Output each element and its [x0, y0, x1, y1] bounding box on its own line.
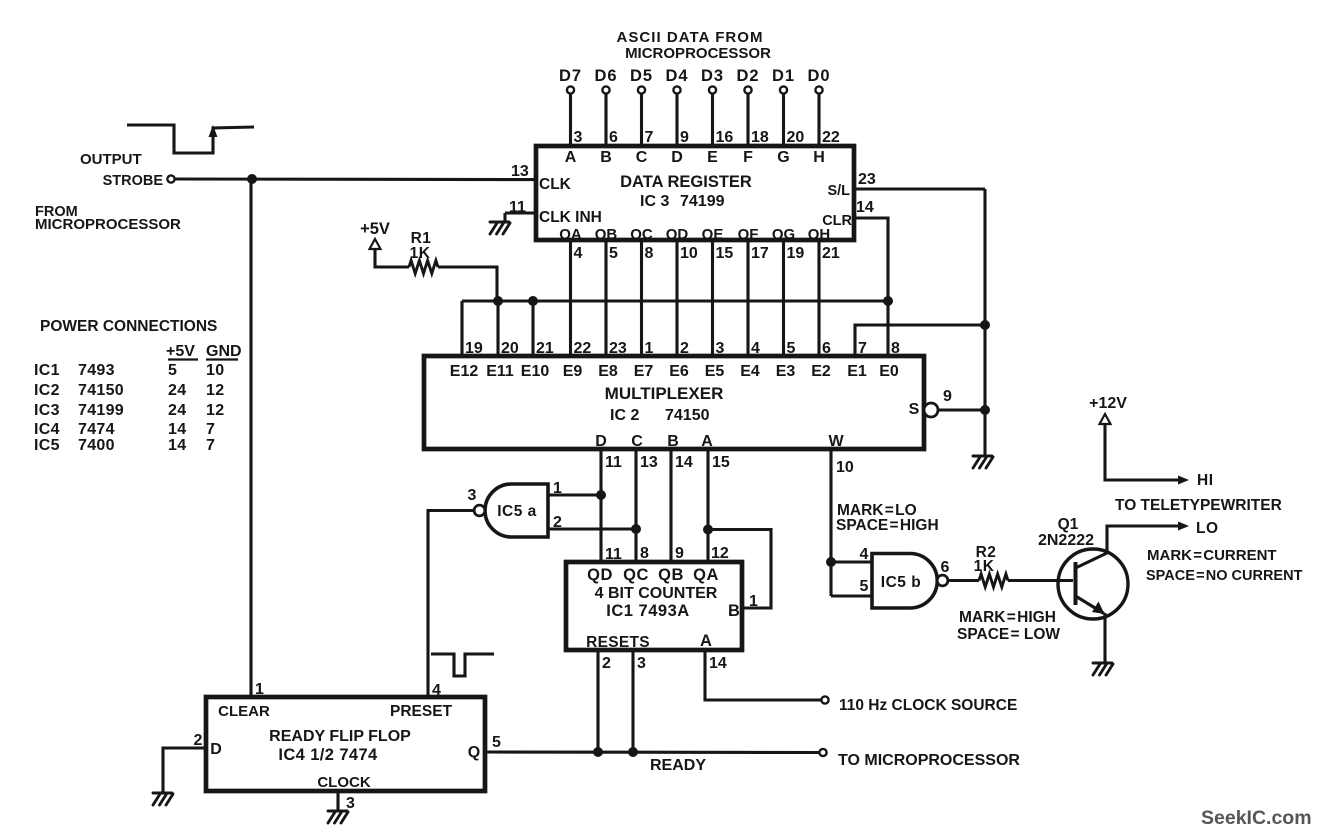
nand gate IC5b body: [872, 554, 937, 609]
svg-text:74199: 74199: [680, 193, 725, 210]
svg-text:11: 11: [605, 454, 622, 471]
svg-text:7: 7: [206, 421, 215, 438]
svg-text:E5: E5: [705, 363, 725, 380]
wire mux C pin 13 down to counter QC pin 8: [634, 449, 637, 562]
wire IC5a output to flip-flop PRESET pin 4: [428, 511, 473, 698]
multiplexer IC2 74150 box: [424, 356, 924, 449]
ground at Q1 emitter: [1093, 663, 1113, 675]
svg-text:E2: E2: [811, 363, 831, 380]
svg-text:QC: QC: [623, 566, 649, 584]
svg-text:8: 8: [891, 340, 900, 357]
svg-text:1K: 1K: [974, 558, 995, 575]
svg-text:D7: D7: [559, 67, 582, 85]
svg-text:TO TELETYPEWRITER: TO TELETYPEWRITER: [1115, 497, 1282, 514]
svg-text:TO MICROPROCESSOR: TO MICROPROCESSOR: [838, 752, 1020, 769]
svg-text:3: 3: [346, 795, 355, 812]
wire D3 to register pin 16: [711, 94, 714, 146]
svg-text:A: A: [565, 149, 577, 166]
wire strobe to CLK pin 13: [175, 177, 536, 181]
svg-text:MARK = HIGH: MARK = HIGH: [959, 609, 1056, 626]
svg-text:E4: E4: [740, 363, 760, 380]
svg-text:E8: E8: [598, 363, 618, 380]
junction bus at E0/CLR vertical: [883, 296, 893, 306]
svg-text:SPACE = HIGH: SPACE = HIGH: [836, 517, 939, 534]
node TO MICROPROCESSOR terminal: [819, 749, 826, 756]
node 110 Hz clock source terminal: [821, 696, 828, 703]
svg-text:4: 4: [574, 245, 583, 262]
svg-text:5: 5: [787, 340, 796, 357]
svg-text:+5V: +5V: [360, 220, 390, 238]
svg-text:IC1: IC1: [34, 362, 60, 379]
svg-text:2: 2: [680, 340, 689, 357]
svg-text:18: 18: [751, 129, 769, 146]
svg-text:7: 7: [858, 340, 867, 357]
svg-text:10: 10: [680, 245, 698, 262]
svg-text:17: 17: [751, 245, 769, 262]
wire D0 to register pin 22: [817, 94, 820, 146]
svg-text:14: 14: [168, 437, 186, 454]
wire D2 to register pin 18: [746, 94, 749, 146]
svg-text:20: 20: [501, 340, 519, 357]
wire D pin 2 to ground: [163, 748, 206, 792]
svg-text:D3: D3: [701, 67, 724, 85]
svg-text:7: 7: [645, 129, 654, 146]
ground at flip flop clock: [328, 811, 348, 823]
wire R1 to +5V bus: [438, 267, 497, 301]
wire register output QH pin 21 down to multiplexer E2: [817, 240, 820, 356]
svg-text:7474: 7474: [78, 421, 115, 438]
wire bus down to E0 pin 8: [886, 301, 889, 356]
wire D5 to register pin 7: [640, 94, 643, 146]
ground at flip flop D input: [153, 793, 173, 805]
wire bus down to E12 pin 19: [460, 301, 463, 356]
svg-text:3: 3: [574, 129, 583, 146]
svg-text:F: F: [743, 149, 753, 166]
wire register output QE pin 15 down to multiplexer E5: [711, 240, 714, 356]
svg-text:QB: QB: [658, 566, 684, 584]
svg-text:D2: D2: [736, 67, 759, 85]
svg-text:6: 6: [941, 559, 950, 576]
strobe waveform pulse: [127, 125, 254, 153]
svg-text:IC 2: IC 2: [610, 407, 639, 424]
svg-text:PRESET: PRESET: [390, 703, 453, 720]
wire S/L pin 23 to the right: [854, 187, 985, 190]
svg-text:1: 1: [553, 480, 562, 497]
svg-text:SeekIC.com: SeekIC.com: [1201, 807, 1312, 829]
svg-text:14: 14: [675, 454, 693, 471]
svg-text:74150: 74150: [665, 407, 710, 424]
svg-text:5: 5: [492, 734, 501, 751]
svg-text:CLOCK: CLOCK: [317, 774, 370, 791]
svg-text:7493: 7493: [78, 362, 115, 379]
svg-text:13: 13: [640, 454, 658, 471]
wire +5V pull-up bus: [462, 299, 888, 302]
svg-text:READY FLIP FLOP: READY FLIP FLOP: [269, 728, 411, 745]
svg-text:3: 3: [468, 487, 477, 504]
node OUTPUT STROBE terminal: [167, 175, 174, 182]
svg-text:SPACE = NO CURRENT: SPACE = NO CURRENT: [1146, 568, 1303, 584]
svg-text:+5V: +5V: [166, 343, 195, 360]
wire R2 to Q1 base: [1008, 579, 1073, 582]
wire IC5a input 2 from C line: [548, 527, 636, 530]
junction READY with counter reset 2: [593, 747, 603, 757]
wire CLR pin 14 right and down to +5V bus: [854, 218, 888, 301]
junction D line with IC5a input 1: [596, 490, 606, 500]
svg-text:13: 13: [511, 163, 529, 180]
svg-text:H: H: [813, 149, 825, 166]
svg-text:9: 9: [680, 129, 689, 146]
junction A line with counter B input tap: [703, 525, 713, 535]
wire D1 to register pin 20: [782, 94, 785, 146]
data register IC3 74199 box: [536, 146, 854, 240]
wire CLK INH pin 11 to ground: [505, 211, 536, 214]
svg-text:QA: QA: [693, 566, 719, 584]
svg-text:DATA REGISTER: DATA REGISTER: [620, 173, 752, 191]
junction S/L with S pin 9: [980, 405, 990, 415]
wire register output QB pin 5 down to multiplexer E8: [604, 240, 607, 356]
svg-text:21: 21: [536, 340, 554, 357]
svg-text:D0: D0: [807, 67, 830, 85]
svg-text:S: S: [909, 401, 920, 418]
svg-text:5: 5: [860, 578, 869, 595]
svg-text:OUTPUT: OUTPUT: [80, 151, 142, 168]
svg-text:11: 11: [605, 546, 622, 563]
svg-text:22: 22: [822, 129, 840, 146]
svg-text:E12: E12: [450, 363, 479, 380]
wire counter reset pin 2 down to READY line: [596, 650, 599, 752]
svg-text:GND: GND: [206, 343, 242, 360]
wire Q1 collector to LO arrow: [1107, 526, 1179, 553]
junction bus at R1 drop: [493, 296, 503, 306]
svg-text:E0: E0: [879, 363, 899, 380]
svg-text:74150: 74150: [78, 382, 124, 399]
wire CLOCK pin 3 to ground: [336, 791, 339, 810]
svg-text:E6: E6: [669, 363, 689, 380]
svg-text:6: 6: [822, 340, 831, 357]
svg-text:10: 10: [836, 459, 854, 476]
junction READY with counter reset 3: [628, 747, 638, 757]
svg-text:24: 24: [168, 382, 186, 399]
svg-text:MULTIPLEXER: MULTIPLEXER: [605, 384, 724, 403]
svg-text:12: 12: [206, 402, 224, 419]
svg-text:7400: 7400: [78, 437, 115, 454]
svg-text:2: 2: [602, 655, 611, 672]
svg-text:B: B: [728, 602, 740, 620]
svg-text:MARK = CURRENT: MARK = CURRENT: [1147, 547, 1277, 564]
svg-text:IC5 b: IC5 b: [881, 574, 921, 591]
svg-text:LO: LO: [1196, 520, 1219, 537]
svg-text:QD: QD: [587, 566, 613, 584]
svg-text:D5: D5: [630, 67, 653, 85]
preset pulse waveform: [431, 654, 494, 676]
wire register output QC pin 8 down to multiplexer E7: [640, 240, 643, 356]
svg-text:Q: Q: [468, 744, 480, 761]
svg-text:12: 12: [206, 382, 224, 399]
svg-text:4 BIT COUNTER: 4 BIT COUNTER: [595, 585, 718, 602]
svg-text:9: 9: [943, 388, 952, 405]
svg-text:E11: E11: [486, 363, 514, 380]
wire counter reset pin 3 down to READY line: [631, 650, 634, 752]
svg-text:+12V: +12V: [1089, 395, 1127, 412]
svg-text:RESETS: RESETS: [586, 634, 650, 651]
svg-text:D: D: [210, 741, 222, 758]
svg-text:B: B: [600, 149, 612, 166]
ground below S/L line: [973, 456, 993, 468]
svg-text:24: 24: [168, 402, 186, 419]
svg-text:SPACE = LOW: SPACE = LOW: [957, 626, 1060, 643]
svg-text:E7: E7: [634, 363, 654, 380]
svg-text:CLEAR: CLEAR: [218, 703, 270, 720]
svg-text:14: 14: [709, 655, 727, 672]
junction strobe node: [247, 174, 257, 184]
svg-text:HI: HI: [1197, 472, 1214, 489]
svg-text:W: W: [828, 433, 844, 450]
svg-text:5: 5: [168, 362, 177, 379]
wire Q1 emitter to ground: [1103, 613, 1106, 662]
nand gate IC5a output bubble pin 3: [474, 505, 485, 516]
svg-text:E: E: [707, 149, 718, 166]
svg-text:CLK INH: CLK INH: [539, 209, 602, 226]
svg-text:MICROPROCESSOR: MICROPROCESSOR: [625, 45, 771, 62]
wire bus down to E11 pin 20: [496, 301, 499, 356]
svg-text:9: 9: [675, 545, 684, 562]
wire bus down to E10 pin 21: [531, 301, 534, 356]
wire +12V to HI arrow: [1105, 424, 1179, 480]
svg-text:2N2222: 2N2222: [1038, 532, 1094, 549]
Q1 collector stroke: [1076, 553, 1108, 568]
svg-text:15: 15: [712, 454, 730, 471]
svg-text:23: 23: [858, 171, 876, 188]
nand gate IC5b output bubble pin 6: [937, 575, 948, 586]
svg-text:1: 1: [645, 340, 654, 357]
svg-text:D4: D4: [665, 67, 688, 85]
svg-text:C: C: [636, 149, 648, 166]
svg-text:ASCII DATA FROM: ASCII DATA FROM: [616, 29, 763, 46]
svg-text:7: 7: [206, 437, 215, 454]
wire Q pin 5 to microprocessor terminal: [485, 750, 819, 754]
Q1 emitter stroke with arrow: [1076, 596, 1105, 614]
svg-text:IC4 1/2 7474: IC4 1/2 7474: [278, 746, 378, 764]
svg-text:4: 4: [860, 546, 869, 563]
wire register output QA pin 4 down to multiplexer E9: [569, 240, 572, 356]
svg-text:16: 16: [716, 129, 734, 146]
svg-text:14: 14: [168, 421, 186, 438]
wire mux B pin 14 down to counter QB pin 9: [669, 449, 672, 562]
svg-text:6: 6: [609, 129, 618, 146]
svg-text:STROBE: STROBE: [103, 173, 164, 189]
wire counter QA tap to B input pin 1: [708, 530, 771, 609]
svg-text:E10: E10: [521, 363, 550, 380]
svg-text:D6: D6: [594, 67, 617, 85]
svg-text:D: D: [595, 433, 607, 450]
svg-text:E9: E9: [563, 363, 583, 380]
svg-text:CLK: CLK: [539, 176, 572, 193]
svg-text:15: 15: [716, 245, 734, 262]
wire IC5a input 1 from D line: [548, 493, 601, 496]
svg-text:IC5: IC5: [34, 437, 60, 454]
svg-text:110 Hz CLOCK SOURCE: 110 Hz CLOCK SOURCE: [839, 697, 1017, 714]
wire strobe down to flip-flop CLEAR: [249, 179, 252, 697]
junction S/L with E1 tap: [980, 320, 990, 330]
svg-text:3: 3: [637, 655, 646, 672]
wire mux D pin 11 down to counter QD pin 11: [599, 449, 602, 562]
svg-text:20: 20: [787, 129, 805, 146]
svg-text:MICROPROCESSOR: MICROPROCESSOR: [35, 216, 181, 233]
svg-text:B: B: [667, 433, 679, 450]
svg-text:74199: 74199: [78, 402, 124, 419]
svg-text:IC 3: IC 3: [640, 193, 669, 210]
wire register output QG pin 19 down to multiplexer E3: [782, 240, 785, 356]
wire register output QF pin 17 down to multiplexer E4: [746, 240, 749, 356]
svg-text:Q1: Q1: [1058, 516, 1079, 533]
transistor Q1 2N2222: [1058, 549, 1128, 619]
svg-text:19: 19: [787, 245, 805, 262]
wire D7 to register pin 3: [569, 94, 572, 146]
svg-text:D1: D1: [772, 67, 795, 85]
svg-text:A: A: [701, 433, 713, 450]
junction W with IC5b input 4: [826, 557, 836, 567]
svg-text:IC2: IC2: [34, 382, 60, 399]
wire to IC5b input 5: [831, 594, 872, 597]
wire register output QD pin 10 down to multiplexer E6: [675, 240, 678, 356]
svg-text:S/L: S/L: [827, 183, 850, 199]
svg-text:G: G: [777, 149, 789, 166]
resistor R2: [979, 574, 1008, 587]
svg-text:C: C: [631, 433, 643, 450]
wire D4 to register pin 9: [675, 94, 678, 146]
junction bus at E10 drop: [528, 296, 538, 306]
wire +5V to R1: [375, 249, 409, 267]
svg-text:2: 2: [553, 514, 562, 531]
svg-text:E3: E3: [776, 363, 796, 380]
wire to IC5b input 4: [831, 560, 872, 563]
svg-text:D: D: [671, 149, 683, 166]
nand gate IC5a body: [485, 484, 548, 537]
svg-text:3: 3: [716, 340, 725, 357]
svg-text:1: 1: [749, 593, 758, 610]
wire mux W pin 10 down to IC5b inputs: [829, 449, 832, 596]
svg-text:5: 5: [609, 245, 618, 262]
wire mux A pin 15 down to counter QA pin 12: [706, 449, 709, 562]
svg-text:23: 23: [609, 340, 627, 357]
junction C line with IC5a input 2: [631, 524, 641, 534]
svg-text:8: 8: [645, 245, 654, 262]
svg-text:14: 14: [856, 199, 874, 216]
wire S/L vertical down to ground: [983, 189, 986, 455]
svg-text:8: 8: [640, 545, 649, 562]
svg-text:21: 21: [822, 245, 840, 262]
ready flip flop IC4 box: [206, 697, 485, 791]
svg-text:IC3: IC3: [34, 402, 60, 419]
svg-text:IC1 7493A: IC1 7493A: [606, 602, 689, 620]
resistor R1: [409, 261, 438, 274]
wire D6 to register pin 6: [604, 94, 607, 146]
wire E1 pin 7 tap to S/L line: [855, 325, 985, 356]
svg-text:A: A: [700, 632, 712, 650]
svg-text:4: 4: [751, 340, 760, 357]
wire IC5b output to R2: [948, 579, 979, 582]
svg-text:POWER CONNECTIONS: POWER CONNECTIONS: [40, 318, 217, 335]
svg-text:IC4: IC4: [34, 421, 60, 438]
svg-text:READY: READY: [650, 757, 706, 774]
svg-text:10: 10: [206, 362, 224, 379]
svg-text:12: 12: [711, 545, 729, 562]
wire counter A pin 14 to 110 Hz clock terminal: [705, 650, 821, 700]
4 bit counter IC1 7493A box: [566, 562, 742, 650]
ground at CLK INH: [490, 222, 510, 234]
wire S pin 9 to S/L line: [938, 408, 985, 411]
svg-text:19: 19: [465, 340, 483, 357]
svg-text:E1: E1: [847, 363, 867, 380]
svg-text:22: 22: [574, 340, 592, 357]
svg-text:IC5 a: IC5 a: [497, 503, 537, 520]
